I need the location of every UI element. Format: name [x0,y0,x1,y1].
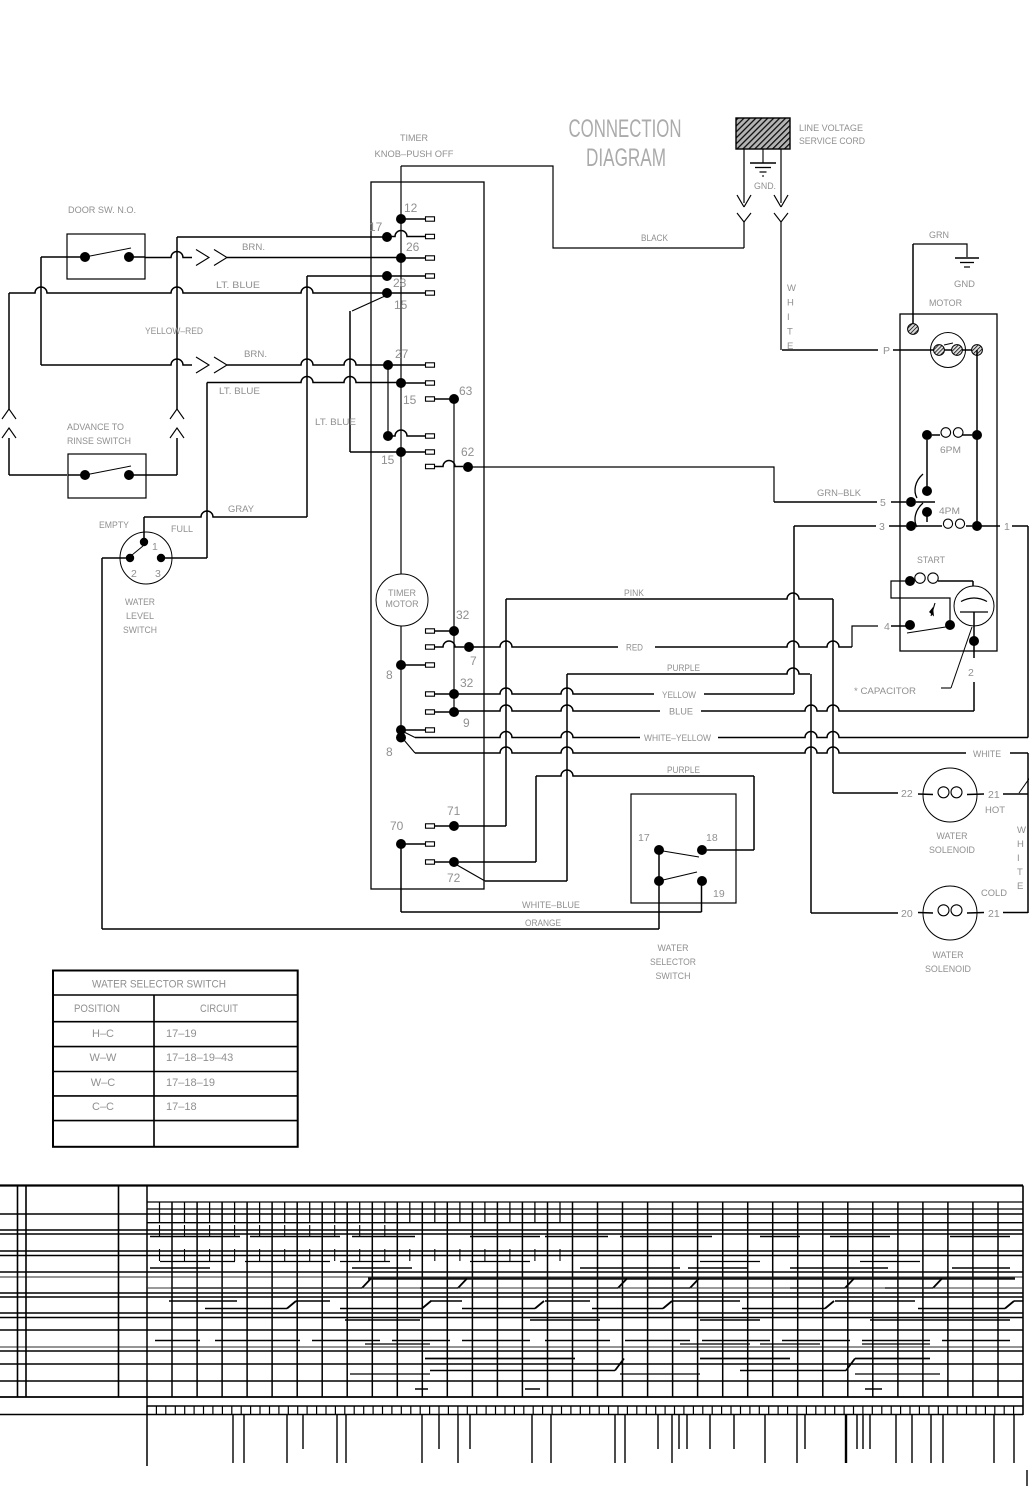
svg-text:ADVANCE TO: ADVANCE TO [67,422,124,433]
svg-text:P: P [883,345,890,357]
svg-text:4PM: 4PM [939,506,960,517]
svg-text:WATER: WATER [658,943,689,954]
svg-text:17: 17 [369,220,383,234]
svg-text:32: 32 [456,608,470,622]
svg-text:28: 28 [393,276,407,290]
svg-text:SOLENOID: SOLENOID [925,964,971,975]
svg-text:W–C: W–C [91,1077,116,1089]
svg-text:T: T [787,327,793,338]
svg-text:TIMER: TIMER [400,133,428,144]
svg-text:LT. BLUE: LT. BLUE [315,417,356,428]
svg-text:19: 19 [713,888,725,900]
svg-text:70: 70 [390,819,404,833]
svg-text:W: W [1017,825,1026,836]
svg-text:15: 15 [394,298,408,312]
svg-text:T: T [1017,867,1023,878]
svg-text:WATER SELECTOR SWITCH: WATER SELECTOR SWITCH [92,979,226,991]
svg-text:17–18–19: 17–18–19 [166,1077,215,1089]
svg-text:17: 17 [638,832,650,844]
svg-text:1: 1 [1004,521,1010,533]
svg-text:15: 15 [381,453,395,467]
svg-text:DOOR SW. N.O.: DOOR SW. N.O. [68,205,136,216]
svg-text:WHITE–BLUE: WHITE–BLUE [522,900,580,911]
svg-text:72: 72 [447,871,461,885]
svg-text:H–C: H–C [92,1028,114,1040]
svg-text:WATER: WATER [933,950,964,961]
svg-text:5: 5 [880,497,886,509]
svg-text:SELECTOR: SELECTOR [650,957,696,968]
svg-text:BRN.: BRN. [244,349,267,360]
svg-text:CIRCUIT: CIRCUIT [200,1003,238,1015]
svg-text:WHITE–YELLOW: WHITE–YELLOW [644,733,711,744]
svg-text:EMPTY: EMPTY [99,520,130,531]
svg-text:SWITCH: SWITCH [656,971,691,982]
svg-text:27: 27 [395,347,409,361]
svg-text:YELLOW–RED: YELLOW–RED [145,326,203,337]
svg-text:4: 4 [884,621,890,633]
svg-text:8: 8 [386,745,393,759]
svg-text:WATER: WATER [125,597,155,608]
svg-text:ORANGE: ORANGE [525,918,561,929]
svg-text:1: 1 [152,541,158,553]
svg-text:PURPLE: PURPLE [667,663,700,674]
svg-text:62: 62 [461,445,475,459]
svg-text:POSITION: POSITION [74,1003,120,1015]
svg-text:CONNECTION: CONNECTION [569,115,682,143]
svg-text:GRN: GRN [929,230,949,241]
svg-text:WATER: WATER [937,831,968,842]
svg-text:LT. BLUE: LT. BLUE [216,280,260,291]
svg-text:26: 26 [406,240,420,254]
svg-text:LEVEL: LEVEL [126,611,154,622]
svg-text:PURPLE: PURPLE [667,765,700,776]
svg-text:32: 32 [460,676,474,690]
svg-text:GRAY: GRAY [228,504,255,515]
svg-text:YELLOW: YELLOW [662,690,696,701]
svg-text:17–18–19–43: 17–18–19–43 [166,1052,233,1064]
svg-text:2: 2 [968,667,974,679]
svg-text:H: H [1017,839,1024,850]
svg-text:GND: GND [954,279,975,290]
svg-text:BLUE: BLUE [669,707,693,718]
svg-text:21: 21 [988,908,1000,920]
svg-text:MOTOR: MOTOR [929,298,962,309]
svg-text:3: 3 [155,568,161,580]
svg-text:GND.: GND. [754,181,776,192]
svg-text:6PM: 6PM [940,445,961,456]
svg-text:7: 7 [470,654,477,668]
svg-text:12: 12 [404,201,418,215]
svg-text:W–W: W–W [90,1052,118,1064]
svg-text:63: 63 [459,384,473,398]
svg-text:C–C: C–C [92,1101,114,1113]
svg-text:E: E [1017,881,1023,892]
svg-text:17–19: 17–19 [166,1028,197,1040]
svg-text:DIAGRAM: DIAGRAM [586,144,666,172]
svg-text:SOLENOID: SOLENOID [929,845,975,856]
svg-text:RINSE SWITCH: RINSE SWITCH [67,436,131,447]
svg-text:20: 20 [901,908,913,920]
svg-text:2: 2 [131,568,137,580]
svg-text:18: 18 [706,832,718,844]
svg-text:W: W [787,283,796,294]
svg-text:22: 22 [901,788,913,800]
svg-text:MOTOR: MOTOR [385,599,419,609]
svg-text:15: 15 [403,393,417,407]
svg-text:9: 9 [463,716,470,730]
svg-text:71: 71 [447,804,461,818]
svg-text:17–18: 17–18 [166,1101,197,1113]
svg-text:RED: RED [626,643,643,654]
svg-text:* CAPACITOR: * CAPACITOR [854,686,916,697]
svg-text:BLACK: BLACK [641,233,669,244]
svg-text:COLD: COLD [981,888,1007,899]
svg-text:3: 3 [879,521,885,533]
svg-text:SWITCH: SWITCH [123,625,157,636]
svg-text:TIMER: TIMER [388,588,416,598]
svg-text:I: I [1017,853,1020,864]
svg-text:H: H [787,298,794,309]
svg-text:8: 8 [386,668,393,682]
svg-text:WHITE: WHITE [973,749,1001,760]
svg-text:KNOB–PUSH OFF: KNOB–PUSH OFF [375,149,454,160]
svg-text:GRN–BLK: GRN–BLK [817,488,862,499]
svg-text:LT. BLUE: LT. BLUE [219,386,260,397]
svg-text:FULL: FULL [171,524,193,535]
svg-text:I: I [787,312,790,323]
svg-text:START: START [917,555,945,566]
svg-text:LINE VOLTAGE: LINE VOLTAGE [799,123,863,134]
svg-text:SERVICE CORD: SERVICE CORD [799,136,865,147]
svg-text:BRN.: BRN. [242,242,265,253]
svg-text:HOT: HOT [985,805,1005,816]
svg-text:PINK: PINK [624,588,645,599]
svg-text:21: 21 [988,789,1000,801]
